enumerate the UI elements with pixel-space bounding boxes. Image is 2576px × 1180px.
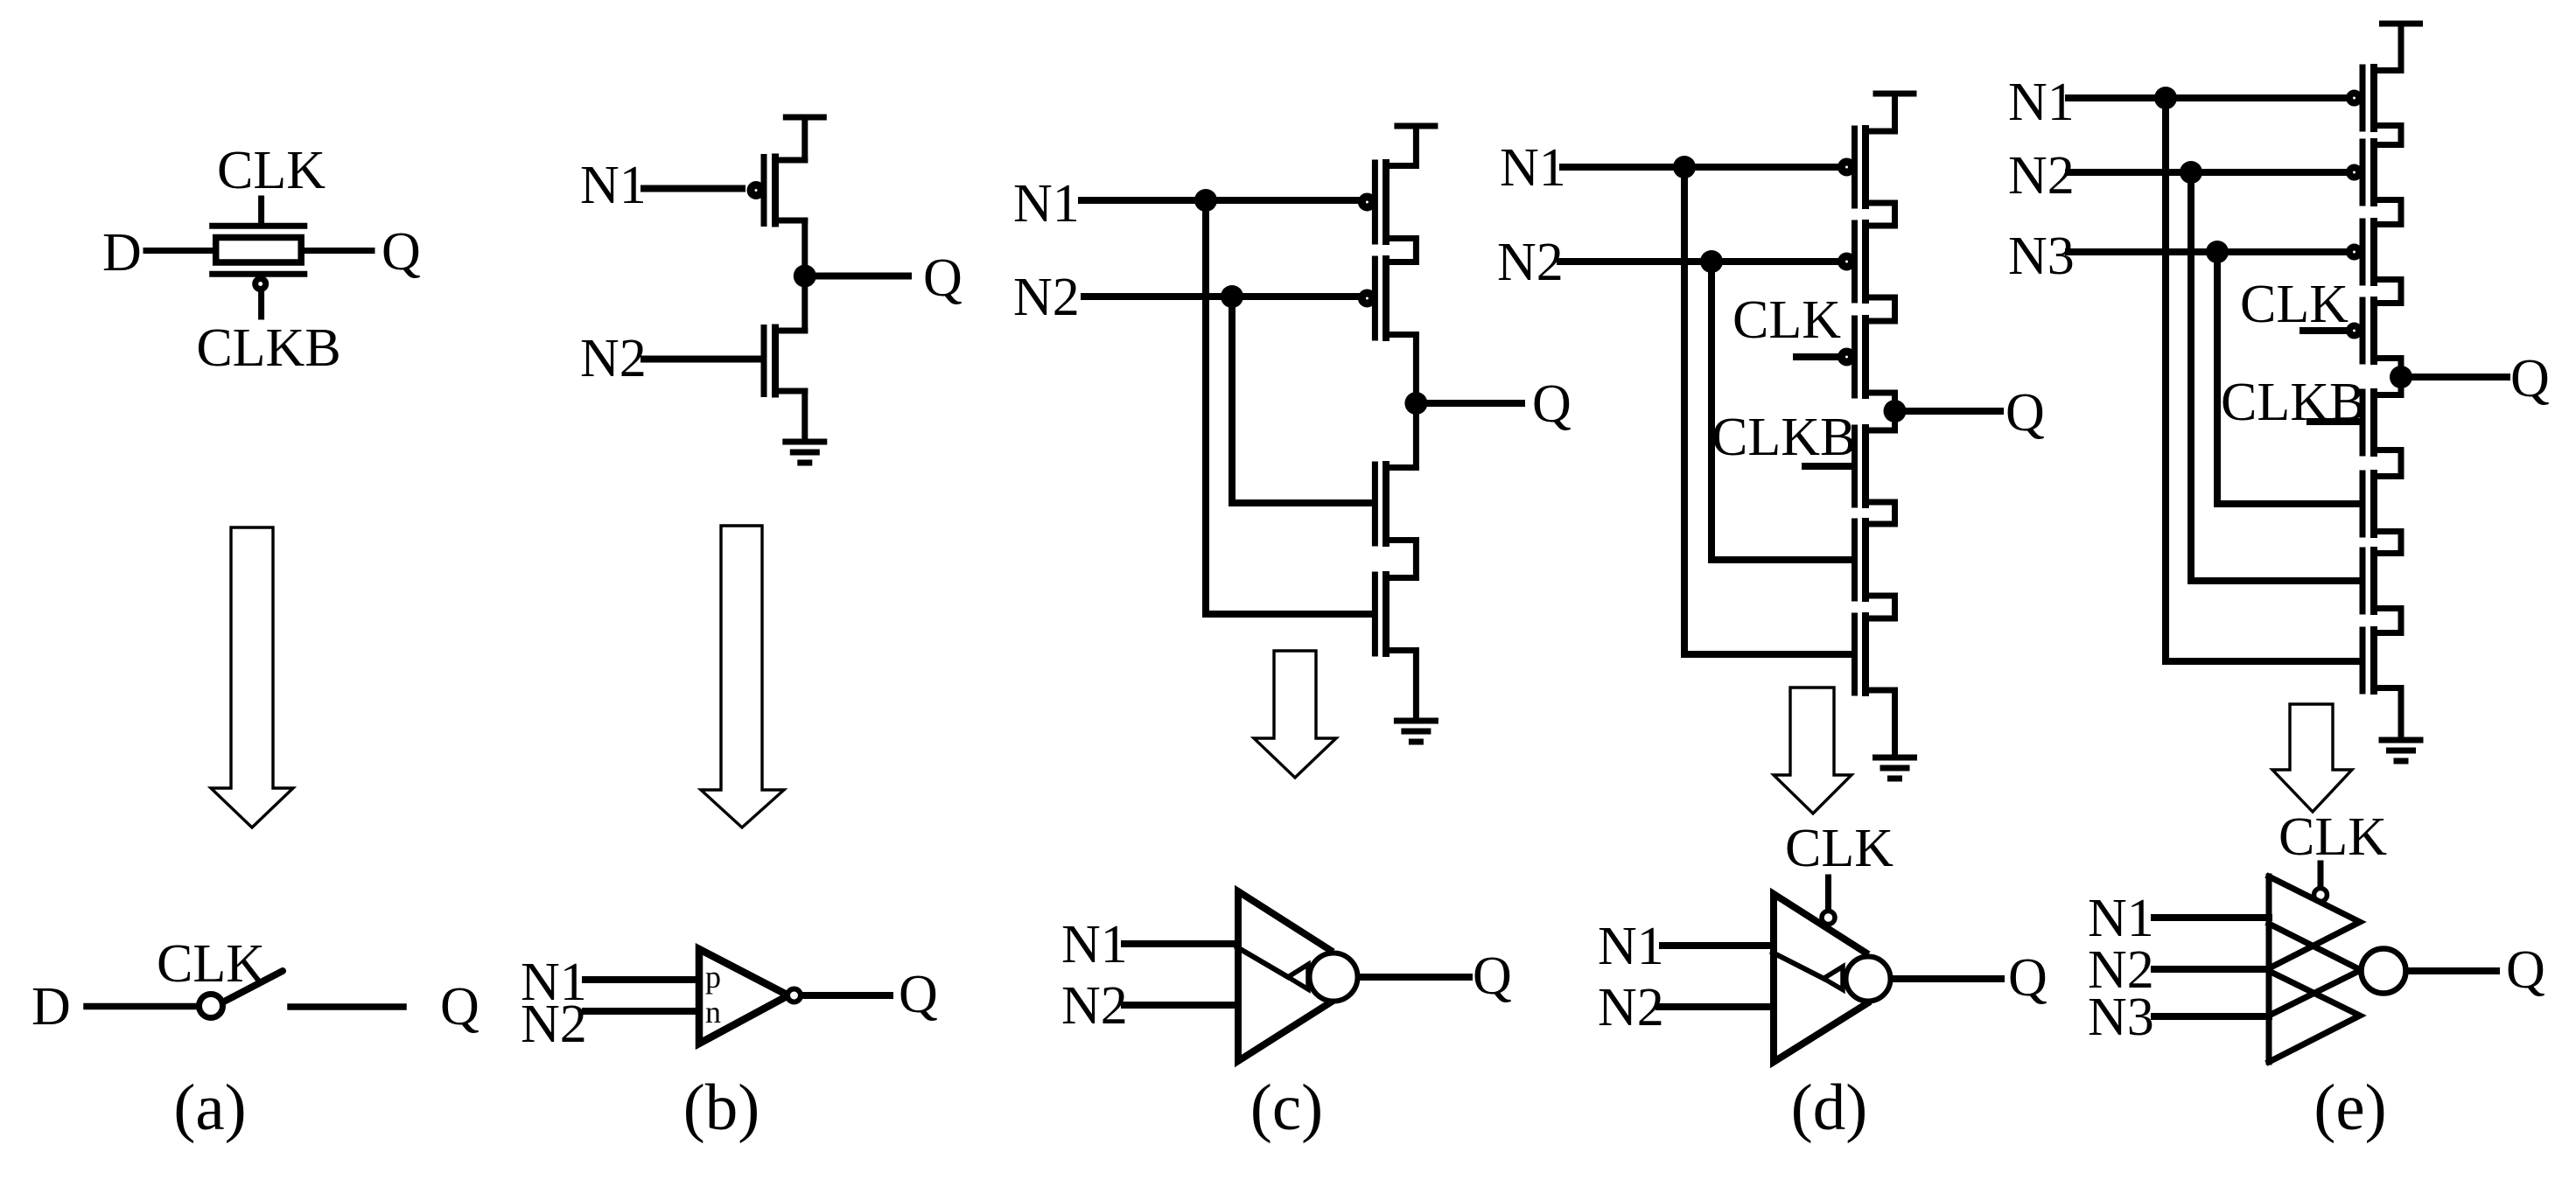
switch contact circle	[199, 995, 223, 1018]
svg-text:Q: Q	[2008, 948, 2047, 1008]
svg-text:N1: N1	[2008, 73, 2075, 132]
transistor PMOS M3 (e)	[2349, 221, 2401, 283]
symbol e chevron 1	[2269, 876, 2360, 968]
symbol c inner small triangle	[1288, 965, 1308, 990]
wire CLK (d)	[1796, 353, 1839, 360]
wire VDD down (c)	[1413, 126, 1419, 166]
svg-text:N2: N2	[1497, 233, 1564, 292]
transistor PMOS M1 (e)	[2349, 67, 2401, 129]
wire VDD down (d)	[1892, 94, 1898, 131]
wire N2 feedback vertical (d)	[1708, 262, 1715, 560]
wire N2 to NMOS gate (d)	[1711, 556, 1851, 563]
junction N3 (e)	[2206, 241, 2229, 263]
junction N1 (d)	[1673, 156, 1696, 178]
transistor NMOS M6 (e)	[2362, 473, 2401, 534]
symbol d output circle	[1846, 957, 1891, 1002]
wire N1 to NMOS gate (c)	[1206, 611, 1372, 618]
svg-text:CLK: CLK	[2240, 275, 2348, 334]
wire M5-M6 (d)	[1892, 596, 1898, 618]
svg-text:CLKB: CLKB	[196, 318, 340, 378]
switch lever	[224, 971, 283, 1002]
arrow d	[1774, 688, 1851, 813]
wire M4-M5 (d)	[1892, 502, 1898, 524]
node Q junction	[794, 265, 816, 288]
wire N1 into inverter	[585, 976, 699, 983]
wire M6-M7 (e)	[2398, 532, 2404, 554]
wire M7-M8 (e)	[2398, 609, 2404, 633]
svg-text:CLK: CLK	[157, 934, 265, 994]
wire Q	[304, 248, 372, 254]
svg-text:N1: N1	[1061, 915, 1128, 974]
wire M1-M2 (e)	[2398, 126, 2404, 145]
wire D	[146, 248, 213, 254]
svg-text:Q: Q	[923, 248, 962, 308]
wire VDD to PMOS	[801, 117, 808, 160]
transistor PMOS M1 (d)	[1842, 129, 1895, 206]
wire Q out of symbol d	[1893, 975, 2001, 982]
wire N1 into symbol d	[1662, 942, 1774, 949]
wire M3-M4 (e)	[2398, 280, 2404, 304]
transistor PMOS M2 (d)	[1842, 223, 1895, 300]
wire N2 to NMOS gate (e)	[2191, 577, 2360, 584]
VDD rail	[786, 115, 823, 121]
wire N2 feedback vertical (e)	[2187, 172, 2194, 581]
wire N1 (e)	[2068, 94, 2347, 101]
transmission gate CLKB bubble	[255, 279, 266, 290]
wire N1 to NMOS gate (d)	[1684, 651, 1851, 658]
wire N1 into symbol e	[2154, 914, 2269, 921]
wire PMOS drain to output	[801, 220, 808, 276]
wire CLK into symbol e	[2318, 863, 2324, 885]
inverter output bubble	[787, 989, 801, 1002]
wire N3 to NMOS gate (e)	[2217, 500, 2360, 507]
transistor NMOS M6 (d)	[1855, 616, 1895, 693]
wire M4 to ground (c)	[1413, 651, 1419, 722]
wire M5-M6 (e)	[2398, 450, 2404, 477]
wire M4 to output (e)	[2398, 359, 2404, 395]
svg-text:(c): (c)	[1250, 1072, 1323, 1144]
wire N3 into symbol e	[2154, 1013, 2269, 1020]
svg-text:(b): (b)	[683, 1072, 759, 1144]
transistor PMOS M4 (e)	[2349, 300, 2401, 361]
svg-text:N2: N2	[1061, 976, 1128, 1036]
junction N1 (e)	[2154, 87, 2177, 109]
svg-text:Q: Q	[2005, 383, 2045, 443]
wire Q (d)	[1906, 408, 2000, 415]
svg-text:Q: Q	[1532, 374, 1571, 434]
wire Q out of symbol c	[1359, 974, 1469, 981]
CLK bubble (symbol e)	[2314, 889, 2327, 902]
svg-text:N2: N2	[2008, 146, 2075, 206]
svg-text:Q: Q	[1473, 946, 1512, 1006]
svg-text:N1: N1	[1598, 917, 1664, 976]
transistor NMOS M7 (e)	[2362, 550, 2401, 611]
symbol d big triangle	[1774, 894, 1867, 1062]
wire inverter output Q	[802, 992, 890, 999]
transistor NMOS M4 (c)	[1375, 575, 1416, 653]
wire N3 (e)	[2068, 248, 2347, 255]
wire CLKB (d)	[1805, 463, 1851, 470]
wire N2 to NMOS gate (c)	[1232, 499, 1372, 506]
svg-text:N3: N3	[2008, 227, 2075, 286]
svg-text:N2: N2	[1598, 978, 1664, 1037]
symbol e left edge	[2266, 876, 2272, 1062]
wire VDD down (e)	[2398, 24, 2404, 71]
wire N1 feedback vertical (e)	[2162, 98, 2169, 661]
junction N2 (c)	[1221, 285, 1243, 308]
transistor PMOS M1 (c)	[1361, 163, 1416, 241]
wire N3 feedback vertical (e)	[2214, 252, 2221, 504]
svg-text:Q: Q	[381, 222, 421, 282]
transistor NMOS M5 (d)	[1855, 521, 1895, 598]
svg-text:CLKB: CLKB	[1711, 408, 1856, 467]
transistor NMOS M3 (c)	[1375, 464, 1416, 543]
wire N1 to PMOS gate	[644, 185, 742, 192]
arrow b	[701, 526, 784, 827]
wire CLK (e)	[2303, 327, 2347, 334]
symbol c inner diagonal	[1237, 947, 1288, 977]
ground	[1876, 758, 1914, 779]
wire N1 (d)	[1563, 164, 1839, 171]
wire CLKB (e)	[2310, 418, 2360, 425]
wire D to switch	[87, 1003, 196, 1010]
symbol e output circle	[2362, 949, 2406, 994]
node Q junction (e)	[2390, 366, 2412, 388]
wire N1 (c)	[1081, 197, 1359, 204]
CLK bubble (symbol d)	[1822, 911, 1835, 925]
svg-text:N2: N2	[580, 329, 647, 388]
transmission gate bottom bar	[213, 271, 304, 277]
transistor NMOS M5 (e)	[2362, 392, 2401, 453]
VDD rail	[2383, 21, 2420, 27]
transistor PMOS M3 (d)	[1842, 318, 1895, 395]
junction N2 (e)	[2180, 161, 2202, 184]
wire CLK to transmission gate	[258, 199, 264, 223]
ground	[1396, 721, 1435, 742]
wire M2-M3 (d)	[1892, 297, 1898, 321]
svg-text:N1: N1	[2088, 889, 2154, 948]
svg-text:N3: N3	[2088, 988, 2154, 1047]
wire N2 into inverter	[585, 1008, 699, 1015]
node Q junction (c)	[1404, 392, 1427, 415]
VDD rail	[1397, 123, 1435, 129]
svg-text:Q: Q	[899, 965, 938, 1024]
wire N2 into symbol e	[2154, 966, 2269, 973]
wire N2 (e)	[2068, 169, 2347, 176]
arrow a	[211, 527, 293, 827]
wire M8 to ground (e)	[2398, 688, 2404, 740]
svg-text:Q: Q	[2506, 940, 2545, 1000]
wire M1-M2 (c)	[1413, 239, 1419, 262]
ground	[2382, 740, 2420, 761]
wire M6 to ground (d)	[1892, 690, 1898, 758]
svg-text:N2: N2	[521, 995, 587, 1054]
symbol c output circle	[1310, 953, 1358, 1002]
svg-text:Q: Q	[2510, 349, 2550, 408]
svg-text:CLK: CLK	[217, 141, 325, 200]
wire Q (c)	[1427, 400, 1522, 407]
wire NMOS source to ground	[801, 391, 808, 442]
wire Q (e)	[2411, 374, 2507, 381]
VDD rail	[1876, 91, 1914, 97]
svg-text:Q: Q	[440, 977, 479, 1037]
transistor PMOS M1	[751, 157, 805, 224]
wire N1 into symbol c	[1124, 940, 1238, 947]
wire N2 into symbol c	[1124, 1002, 1238, 1009]
arrow e	[2272, 704, 2352, 812]
symbol e chevron 2	[2269, 924, 2361, 1016]
symbol c big triangle	[1238, 891, 1332, 1061]
transistor NMOS M8 (e)	[2362, 630, 2401, 691]
ground	[786, 442, 824, 463]
transistor NMOS M2	[764, 328, 805, 394]
svg-text:N2: N2	[1013, 268, 1080, 327]
svg-text:N1: N1	[580, 156, 647, 215]
arrow c	[1254, 651, 1336, 778]
svg-text:N1: N1	[1013, 174, 1080, 234]
wire M3 to output (d)	[1892, 393, 1898, 430]
wire N2 (c)	[1084, 293, 1359, 300]
symbol e chevron 3	[2269, 971, 2360, 1062]
wire M2-M3 (e)	[2398, 200, 2404, 225]
svg-text:N1: N1	[1500, 138, 1566, 198]
junction N1 (c)	[1194, 189, 1217, 212]
wire N1 feedback vertical (d)	[1681, 167, 1688, 654]
symbol d inner small triangle	[1823, 967, 1843, 990]
wire Q out of symbol e	[2410, 967, 2496, 974]
svg-text:CLK: CLK	[1732, 290, 1841, 350]
wire M3-M4 (c)	[1413, 541, 1419, 578]
transistor PMOS M2 (c)	[1361, 259, 1416, 338]
transistor NMOS M4 (d)	[1855, 428, 1895, 505]
svg-text:(d): (d)	[1791, 1072, 1867, 1144]
wire N2 to NMOS gate	[644, 356, 761, 363]
wire N2 feedback vertical (c)	[1228, 297, 1235, 503]
wire M2 to output node (c)	[1413, 335, 1419, 468]
svg-text:(a): (a)	[173, 1072, 246, 1144]
svg-text:n: n	[705, 995, 721, 1030]
symbol d inner diagonal	[1773, 953, 1823, 979]
wire bubble to CLKB	[258, 290, 264, 317]
svg-text:D: D	[31, 977, 71, 1037]
wire N2 (d)	[1560, 258, 1839, 265]
svg-text:D: D	[102, 223, 142, 283]
junction N2 (d)	[1700, 250, 1723, 273]
inverter triangle U1	[699, 949, 788, 1044]
node Q junction (d)	[1884, 400, 1907, 422]
wire N1 feedback vertical (c)	[1202, 200, 1209, 614]
svg-text:CLK: CLK	[1785, 819, 1893, 878]
wire CLK into symbol d	[1825, 877, 1831, 908]
wire M1-M2 (d)	[1892, 203, 1898, 226]
transmission gate body	[216, 238, 302, 263]
wire N1 to NMOS gate (e)	[2166, 658, 2360, 665]
svg-text:p: p	[705, 960, 721, 995]
wire output to NMOS drain	[801, 276, 808, 332]
wire Q	[814, 273, 908, 280]
transmission gate top bar	[213, 223, 304, 229]
wire switch to Q	[290, 1003, 403, 1010]
svg-text:(e): (e)	[2313, 1072, 2386, 1144]
wire N2 into symbol d	[1659, 1003, 1774, 1010]
transistor PMOS M2 (e)	[2349, 142, 2401, 203]
svg-text:CLK: CLK	[2278, 807, 2387, 867]
